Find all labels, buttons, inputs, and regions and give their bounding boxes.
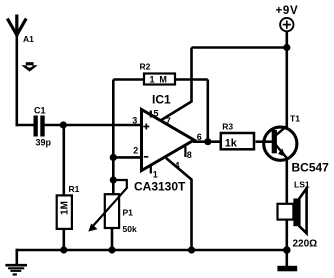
svg-text:1 M: 1 M <box>149 75 168 85</box>
svg-text:5: 5 <box>154 108 159 118</box>
T1 collector diagonal <box>276 126 288 136</box>
resistor R1 <box>57 195 72 229</box>
svg-text:220Ω: 220Ω <box>293 239 318 250</box>
svg-text:4: 4 <box>175 160 180 170</box>
transistor T1 <box>264 127 297 160</box>
svg-text:7: 7 <box>166 116 171 126</box>
wire supply horizontal to pin7 <box>192 46 287 49</box>
minus input marker <box>144 156 149 158</box>
svg-text:T1: T1 <box>290 114 300 124</box>
wire emitter down to speaker <box>285 157 288 204</box>
antenna pickup symbol <box>21 62 37 71</box>
node junction C1/R1 <box>60 121 67 128</box>
capacitor C1 <box>34 116 38 137</box>
wire C1 to op-amp pin 3 <box>45 124 142 127</box>
svg-text:+9V: +9V <box>276 5 299 17</box>
node pin2/feedback junction <box>110 154 117 161</box>
svg-text:3: 3 <box>132 115 137 125</box>
svg-text:R1: R1 <box>69 184 80 194</box>
wire ground stub <box>15 249 18 265</box>
node R1/rail <box>60 246 67 253</box>
svg-text:A1: A1 <box>23 34 34 44</box>
svg-text:C1: C1 <box>34 106 46 116</box>
svg-text:CA3130T: CA3130T <box>134 180 186 194</box>
wire R2 left <box>113 78 144 81</box>
svg-text:8: 8 <box>187 150 192 160</box>
svg-text:IC1: IC1 <box>152 93 171 107</box>
svg-text:R3: R3 <box>222 122 233 132</box>
node output/feedback <box>204 138 211 145</box>
ground bar (right) <box>277 266 297 272</box>
supply terminal circle <box>280 18 293 31</box>
potentiometer P1 <box>105 194 119 228</box>
wire R1 to ground rail <box>62 229 65 251</box>
pin 1 tick <box>150 164 152 174</box>
wire P1 to rail <box>111 228 114 250</box>
wire op-amp output to R3 <box>193 140 221 143</box>
svg-text:50k: 50k <box>123 224 137 234</box>
wire speaker to rail <box>285 220 288 251</box>
P1 wiper arrow <box>93 187 128 226</box>
wire R2 right <box>175 78 208 81</box>
node speaker/rail <box>283 246 291 254</box>
node P1/rail <box>108 246 115 253</box>
svg-text:1: 1 <box>153 170 158 180</box>
svg-text:1M: 1M <box>60 201 71 215</box>
antenna A1 <box>7 15 26 37</box>
pin 7 wire (supply) <box>161 48 192 121</box>
resistor R3 <box>221 133 254 149</box>
pin 5 tick <box>150 111 152 118</box>
pin 8 tick <box>184 147 186 158</box>
svg-text:P1: P1 <box>123 208 134 218</box>
svg-text:R2: R2 <box>140 62 151 72</box>
ground <box>5 265 27 274</box>
T1 emitter arrow <box>278 149 286 157</box>
wire feedback left vertical (R2 to pin2 to P1) <box>112 80 115 195</box>
T1 emitter diagonal <box>276 145 287 158</box>
op-amp IC1 <box>142 110 195 171</box>
wire pin2 <box>113 156 142 159</box>
wire antenna mast down <box>15 33 18 126</box>
wire junction down to R1 <box>62 125 65 196</box>
wire R2 right vertical down to output <box>207 80 210 142</box>
wire supply down <box>285 31 288 48</box>
svg-text:1k: 1k <box>225 138 238 150</box>
T1 base bar <box>272 130 277 153</box>
node supply junction <box>283 44 290 51</box>
wire collector <box>285 48 288 128</box>
node P1 wiper junction <box>110 176 117 183</box>
ground rail wire <box>17 249 287 252</box>
svg-text:2: 2 <box>133 146 138 156</box>
resistor R2 <box>144 74 175 85</box>
pin 4 wire (V-) <box>166 158 192 250</box>
plus input marker <box>143 124 149 130</box>
loudspeaker LS1 <box>278 204 294 220</box>
wire stub to ground bar <box>285 250 288 267</box>
svg-text:LS1: LS1 <box>294 180 310 190</box>
svg-text:BC547: BC547 <box>292 161 330 175</box>
wire R3 to base <box>256 140 272 143</box>
node pin4/rail <box>188 246 195 253</box>
wire to C1 <box>16 124 34 127</box>
svg-text:39p: 39p <box>36 138 52 148</box>
wire wiper L-link <box>113 180 127 188</box>
